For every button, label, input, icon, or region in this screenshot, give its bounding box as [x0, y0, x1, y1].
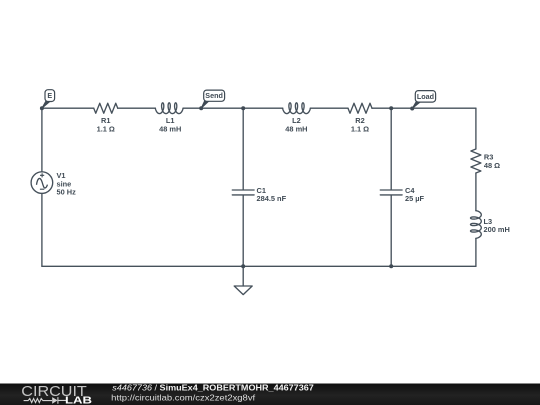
svg-text:200 mH: 200 mH	[484, 225, 510, 234]
wire: R2 to top-right corner	[372, 107, 476, 109]
ground	[234, 266, 252, 294]
inductor L3	[471, 211, 482, 239]
wire: C1 branch upper	[242, 108, 244, 189]
label L2 value	[285, 116, 307, 133]
svg-text:1.1 Ω: 1.1 Ω	[97, 124, 115, 133]
label C4 value	[405, 186, 425, 203]
C4 bottom junction	[389, 264, 393, 268]
svg-text:s4467736 / SimuEx4_ROBERTMOHR_: s4467736 / SimuEx4_ROBERTMOHR_44677367	[112, 383, 314, 393]
label L1 value	[159, 116, 181, 133]
svg-text:50 Hz: 50 Hz	[57, 188, 77, 197]
label L3 value	[484, 217, 510, 234]
wire: C1 node to L2 handled above; L2 to R2	[310, 107, 348, 109]
label R2 value	[351, 116, 369, 133]
wire: R3 to L3	[475, 173, 477, 211]
CircuitLab logo	[21, 384, 92, 405]
ground junction	[241, 264, 245, 268]
label R3 value	[484, 153, 500, 170]
flag Load	[410, 91, 435, 111]
wire: top rail left segment (E corner to R1)	[42, 107, 94, 109]
resistor R3	[471, 149, 481, 173]
capacitor C1	[232, 190, 254, 195]
wire: C4 branch upper	[390, 108, 392, 189]
node Load junction	[389, 106, 393, 110]
wire: left vertical (E corner down to V1 top)	[41, 108, 43, 172]
voltage source V1	[31, 172, 53, 194]
svg-text:Send: Send	[205, 91, 223, 100]
flag Send	[199, 90, 224, 110]
svg-text:http://circuitlab.com/czx2zet2: http://circuitlab.com/czx2zet2xg8vf	[111, 392, 256, 402]
svg-text:48 Ω: 48 Ω	[484, 161, 500, 170]
svg-text:25 µF: 25 µF	[405, 194, 425, 203]
label V1 value	[57, 171, 77, 196]
capacitor C4	[380, 190, 402, 195]
label C1 value	[257, 186, 287, 203]
wire: V1 bottom to bottom rail	[41, 193, 43, 266]
wire: R1 to L1	[118, 107, 156, 109]
inductor L1	[155, 103, 183, 114]
svg-text:LAB: LAB	[65, 396, 92, 405]
wire: C4 branch lower	[390, 196, 392, 267]
svg-text:E: E	[47, 91, 52, 100]
wire: right vertical top (corner to R3)	[475, 108, 477, 149]
label R1 value	[97, 116, 115, 133]
svg-text:1.1 Ω: 1.1 Ω	[351, 124, 369, 133]
svg-text:48 mH: 48 mH	[159, 124, 181, 133]
resistor R2	[348, 103, 372, 113]
wire: L3 to bottom-right corner	[475, 238, 477, 266]
svg-text:284.5 nF: 284.5 nF	[257, 194, 287, 203]
resistor R1	[94, 103, 118, 113]
svg-text:48 mH: 48 mH	[285, 124, 307, 133]
node Send junction	[241, 106, 245, 110]
wire: bottom rail	[42, 265, 476, 267]
wire: L1 to node Send/C1	[183, 107, 283, 109]
svg-text:Load: Load	[417, 92, 434, 101]
inductor L2	[283, 103, 311, 114]
flag E	[40, 90, 55, 111]
wire: C1 branch lower	[242, 196, 244, 267]
